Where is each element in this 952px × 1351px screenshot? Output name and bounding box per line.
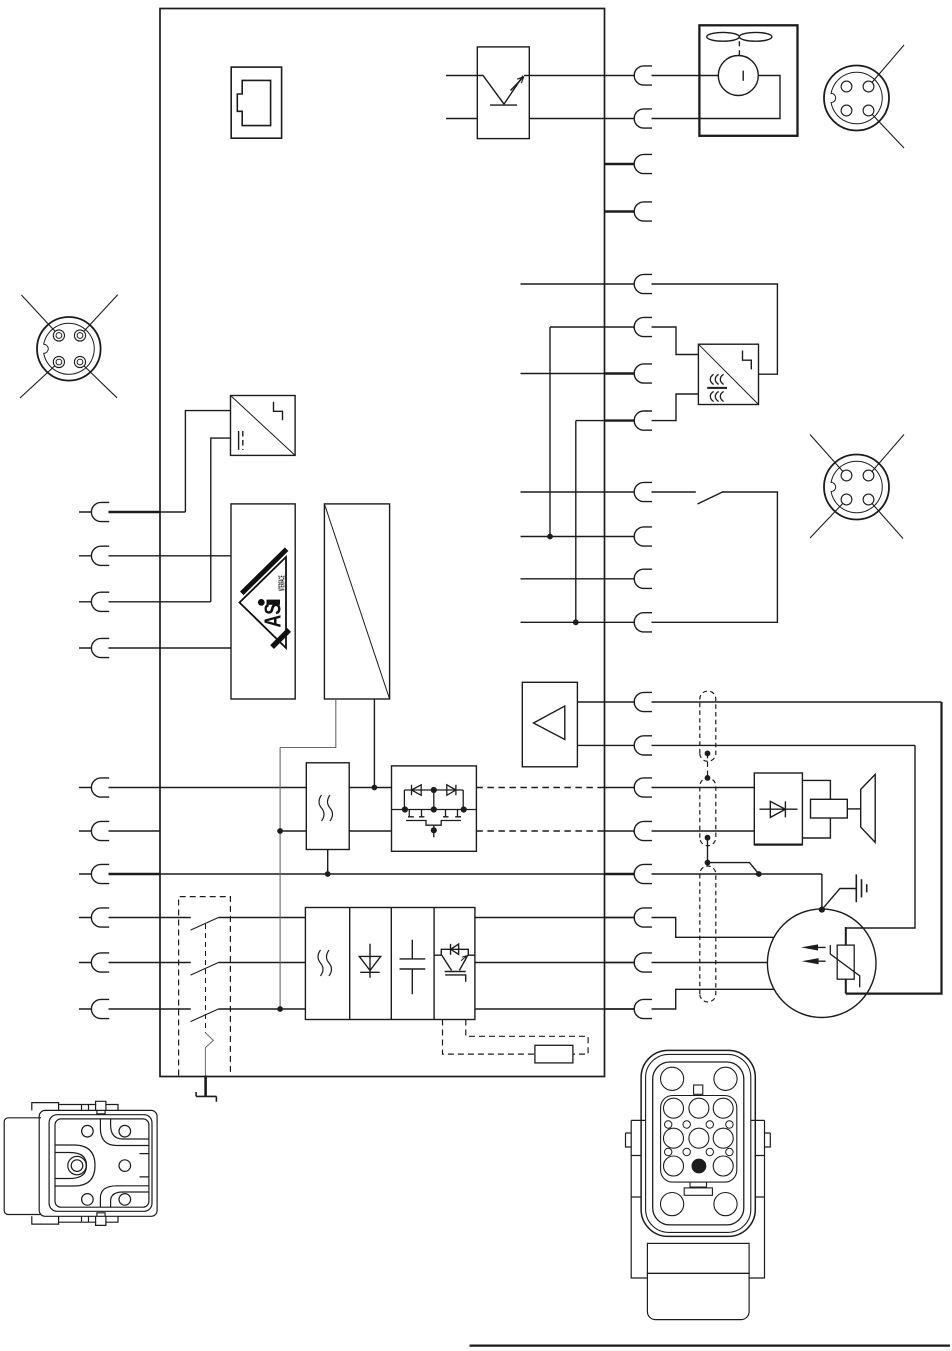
svg-text:AS: AS <box>260 603 286 628</box>
svg-text:NTERFACE: NTERFACE <box>277 575 287 591</box>
